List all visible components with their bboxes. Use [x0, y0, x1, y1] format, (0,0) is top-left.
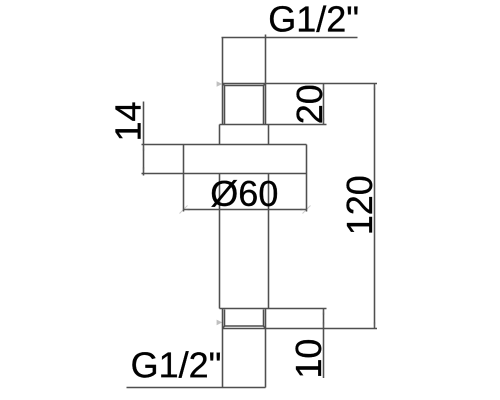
svg-text:120: 120: [339, 175, 380, 235]
svg-text:Ø60: Ø60: [210, 173, 278, 214]
svg-text:G1/2": G1/2": [131, 344, 222, 385]
svg-text:14: 14: [108, 101, 149, 141]
svg-text:10: 10: [288, 339, 329, 379]
svg-text:G1/2": G1/2": [268, 0, 359, 40]
svg-text:20: 20: [289, 84, 330, 124]
